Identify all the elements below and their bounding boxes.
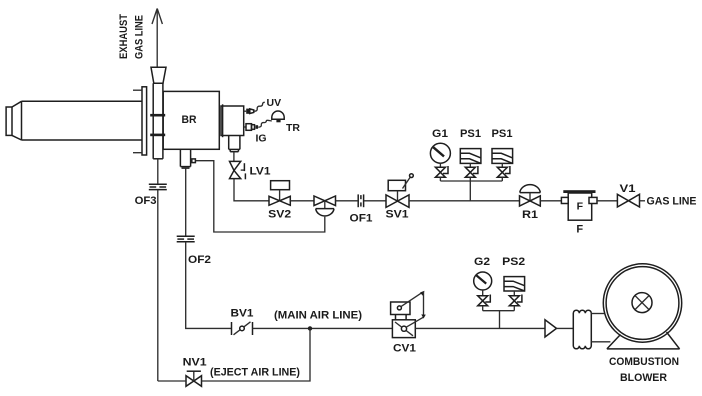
svg-text:BR: BR: [182, 114, 197, 126]
svg-text:GAS LINE: GAS LINE: [134, 15, 146, 59]
filter F: [561, 190, 597, 220]
wire pilot pipe to LV1: [233, 152, 235, 162]
gauge cock under PS1 b: [497, 163, 510, 181]
blower inlet duct: [591, 314, 610, 342]
needle valve NV1: [186, 371, 202, 386]
label EXHAUST GAS LINE (vertical): [118, 14, 146, 59]
wire BV1 to CV1: [253, 327, 393, 329]
exhaust stack flare: [151, 67, 166, 83]
gas governor valve: [314, 196, 336, 216]
gauge cock under G1: [435, 163, 448, 181]
control damper CV1: [391, 291, 426, 338]
wire manifold to air line: [499, 311, 501, 329]
pilot assembly housing: [221, 104, 244, 137]
valve LV1: [230, 161, 246, 179]
flexible joint: [573, 310, 591, 349]
svg-text:OF3: OF3: [135, 195, 157, 207]
mounting flange: [133, 87, 147, 155]
gauge G2: [474, 272, 492, 290]
svg-text:PS2: PS2: [502, 256, 525, 268]
wire manifold to gas line: [469, 177, 471, 201]
burner tube tip: [6, 107, 12, 135]
svg-text:IG: IG: [256, 133, 267, 145]
svg-text:SV1: SV1: [386, 209, 409, 221]
svg-text:R1: R1: [522, 209, 538, 221]
wire LV1 down to gas line: [234, 179, 269, 201]
svg-text:F: F: [577, 201, 584, 213]
svg-text:(EJECT AIR LINE): (EJECT AIR LINE): [210, 366, 300, 378]
valve V1: [617, 194, 639, 207]
instrument manifold: [440, 180, 502, 182]
svg-text:UV: UV: [267, 97, 282, 109]
pipe spool band lower: [150, 134, 165, 137]
svg-text:V1: V1: [620, 183, 636, 195]
wire CV1 to blower inlet: [415, 327, 545, 329]
svg-text:CV1: CV1: [393, 343, 416, 355]
svg-text:OF2: OF2: [188, 254, 211, 266]
pressure switch PS1 a: [460, 149, 481, 164]
svg-text:NV1: NV1: [183, 357, 207, 369]
orifice OF1: [358, 194, 363, 207]
svg-text:SV2: SV2: [268, 209, 291, 221]
exhaust arrow: [152, 9, 162, 68]
svg-text:G1: G1: [432, 128, 448, 140]
burner bottom pipe: [180, 149, 190, 168]
pressure switch PS1 b: [492, 149, 513, 164]
wire SV2 to governor: [290, 200, 314, 202]
svg-text:COMBUSTION: COMBUSTION: [609, 356, 679, 368]
wire eject line right: [202, 328, 311, 381]
svg-text:F: F: [576, 224, 583, 236]
wire cone to flex: [557, 327, 574, 329]
wire R1 to filter: [540, 200, 561, 202]
gauge cock under PS1 a: [465, 163, 478, 177]
wire OF1 to SV1: [364, 200, 386, 202]
wire SV1 to R1: [409, 200, 520, 202]
svg-text:GAS LINE: GAS LINE: [647, 196, 697, 208]
ignition transformer TR: [272, 111, 284, 122]
UV sensor nozzle: [244, 102, 265, 113]
node main air junction: [308, 326, 312, 330]
svg-text:EXHAUST: EXHAUST: [118, 14, 130, 59]
pressure switch PS2: [504, 277, 525, 291]
svg-text:TR: TR: [286, 122, 300, 134]
regulator R1: [520, 185, 541, 206]
solenoid valve SV1: [386, 174, 413, 208]
gauge cock under PS2: [509, 291, 522, 311]
svg-text:PS1: PS1: [492, 128, 513, 140]
orifice OF2: [177, 236, 195, 241]
blower base: [607, 332, 680, 349]
wire governor to OF1: [336, 200, 359, 202]
wire burner pipe down: [185, 168, 187, 236]
wire OF3 down to eject line: [157, 190, 159, 381]
air instrument manifold: [483, 310, 515, 312]
ignition electrode IG: [244, 120, 272, 130]
butterfly valve BV1: [232, 322, 253, 335]
svg-text:OF1: OF1: [350, 213, 373, 225]
burner tube body: [22, 101, 143, 140]
wire OF2 down to main air line: [186, 242, 232, 329]
pipe spool band upper: [150, 114, 165, 117]
wire filter to V1: [597, 200, 617, 202]
gauge G1: [430, 143, 450, 163]
svg-text:LV1: LV1: [250, 166, 271, 178]
pilot drop pipe: [229, 136, 240, 152]
svg-text:G2: G2: [474, 256, 490, 268]
combustion blower housing: [603, 264, 681, 342]
burner tube taper: [12, 101, 22, 140]
exhaust pipe: [153, 83, 163, 159]
wire exhaust pipe to OF3: [157, 159, 159, 184]
label COMBUSTION BLOWER: [609, 356, 679, 384]
solenoid valve SV2: [269, 181, 290, 206]
gauge cock under G2: [478, 290, 491, 311]
svg-text:BLOWER: BLOWER: [620, 372, 667, 384]
impulse line from burner to governor: [195, 161, 324, 232]
svg-text:(MAIN AIR LINE): (MAIN AIR LINE): [274, 310, 362, 322]
inlet cone: [545, 320, 557, 337]
wire V1 stub: [640, 200, 646, 202]
burner body BR: [163, 91, 219, 149]
impulse tap nub: [192, 159, 196, 163]
svg-text:PS1: PS1: [460, 128, 481, 140]
svg-text:BV1: BV1: [231, 308, 254, 320]
wire eject line left: [158, 380, 186, 382]
orifice OF3: [149, 184, 167, 189]
